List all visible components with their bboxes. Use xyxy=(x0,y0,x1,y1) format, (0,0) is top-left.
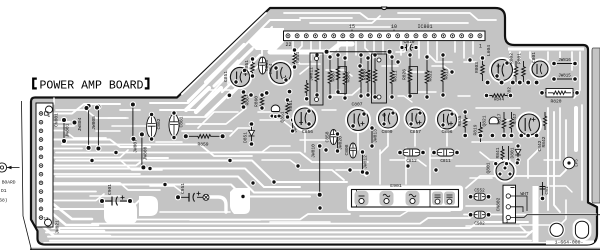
connector CN802 xyxy=(503,185,516,223)
svg-text:D1: D1 xyxy=(1,188,7,194)
resistor R819 xyxy=(479,122,483,142)
resistor R852 xyxy=(305,80,308,96)
svg-text:JW812: JW812 xyxy=(363,155,369,169)
svg-text:C502: C502 xyxy=(474,222,485,227)
resistor R803 xyxy=(481,58,485,81)
resistor group under IC801 xyxy=(315,55,319,95)
svg-text:C806: C806 xyxy=(441,129,452,135)
svg-text:C901: C901 xyxy=(107,184,113,195)
svg-text:R854: R854 xyxy=(295,52,301,63)
jumper JW805 xyxy=(97,107,99,149)
wire pour top-right margin xyxy=(508,48,584,51)
transistor Q821 xyxy=(489,117,498,124)
resistor R817 xyxy=(502,112,506,135)
node pads row middle cluster xyxy=(227,92,233,98)
svg-text:D851: D851 xyxy=(242,132,248,143)
svg-text:JW810: JW810 xyxy=(311,144,317,158)
jumper body JW814 xyxy=(338,67,347,94)
svg-text:C811: C811 xyxy=(440,159,451,164)
component E901 (AC filter block) xyxy=(352,190,459,208)
jumper JW820 xyxy=(337,134,339,151)
wire bus bottom horizontal traces xyxy=(50,240,531,242)
svg-text:JW816: JW816 xyxy=(558,59,571,63)
svg-text:R802: R802 xyxy=(509,53,515,64)
svg-text:R819: R819 xyxy=(473,124,479,135)
svg-text:R826: R826 xyxy=(402,69,408,80)
svg-text:LP5: LP5 xyxy=(576,159,580,167)
svg-text:R820: R820 xyxy=(550,98,561,104)
diode D801 xyxy=(517,146,519,160)
mounting hole right xyxy=(575,221,588,238)
capacitor C811 xyxy=(437,149,454,156)
capacitor C842 xyxy=(517,113,541,137)
capacitor C803 xyxy=(490,58,514,82)
wire pour bottom-left region xyxy=(104,202,137,224)
wire leads from CN802 xyxy=(511,196,528,211)
svg-text:C51: C51 xyxy=(544,186,550,195)
capacitor C552 xyxy=(474,193,486,200)
svg-text:C862: C862 xyxy=(156,118,162,129)
capacitor C853 xyxy=(259,57,267,74)
wire fan middle traces xyxy=(56,161,347,183)
svg-text:D801: D801 xyxy=(509,147,515,158)
svg-text:JW807: JW807 xyxy=(133,139,139,153)
svg-text:IC801: IC801 xyxy=(417,24,432,30)
resistor R844 xyxy=(489,94,508,97)
diode D845 xyxy=(508,146,510,162)
wire drops from IC801 pins xyxy=(292,41,294,57)
svg-text:R851: R851 xyxy=(244,60,250,71)
svg-text:Q851: Q851 xyxy=(279,111,285,122)
svg-text:JW808: JW808 xyxy=(143,146,149,160)
svg-text:R811: R811 xyxy=(392,70,398,81)
wire diagonal bundle near top-left edge xyxy=(206,45,244,82)
capacitor C809 xyxy=(377,108,399,130)
svg-text:R803: R803 xyxy=(474,62,480,73)
wire traces top-right section xyxy=(504,52,510,78)
svg-text:R817: R817 xyxy=(496,113,502,124)
capacitor C854 xyxy=(269,61,293,85)
svg-text:C812: C812 xyxy=(406,159,417,164)
jumper JW901 xyxy=(319,146,321,195)
svg-text:Q801: Q801 xyxy=(486,162,492,173)
board edge notch xyxy=(382,7,387,10)
svg-text:C861: C861 xyxy=(178,116,184,127)
resistor body R856 xyxy=(310,53,323,105)
svg-text:JW813: JW813 xyxy=(372,129,378,143)
svg-text:C801: C801 xyxy=(531,52,537,63)
svg-text:R835: R835 xyxy=(457,115,463,126)
resistor R854 xyxy=(293,50,297,67)
resistor R841 xyxy=(501,146,504,162)
svg-text:JW805: JW805 xyxy=(91,116,97,130)
svg-text:C951: C951 xyxy=(180,183,186,194)
svg-text:C809: C809 xyxy=(381,129,392,135)
wire diagonal traces along top-left edge xyxy=(182,13,266,94)
svg-text:JW820: JW820 xyxy=(338,136,344,150)
jumper JW808 xyxy=(141,134,143,167)
svg-text:JW821: JW821 xyxy=(55,220,61,234)
wire pour bottom-right hole area xyxy=(540,219,591,242)
svg-text:15: 15 xyxy=(349,24,355,30)
capacitor C807 xyxy=(346,108,370,132)
svg-text:R859: R859 xyxy=(197,142,208,148)
svg-text:Q821: Q821 xyxy=(482,115,488,126)
svg-text:E901: E901 xyxy=(390,183,402,189)
svg-text:22: 22 xyxy=(285,42,291,48)
jumper JW801 xyxy=(63,120,65,141)
svg-text:C856: C856 xyxy=(302,129,313,135)
resistor R861 xyxy=(286,100,290,117)
svg-text:JW804: JW804 xyxy=(77,117,83,131)
svg-text:R844: R844 xyxy=(494,98,505,103)
capacitor C858 xyxy=(330,130,337,145)
resistor R802 xyxy=(514,61,518,82)
node junction pads xyxy=(89,158,95,164)
svg-text:1-664-000-: 1-664-000- xyxy=(555,240,584,246)
wire pour mid-bottom blob xyxy=(230,188,250,214)
node pad left xyxy=(71,119,77,125)
capacitor C810 xyxy=(402,47,416,49)
svg-text:R813: R813 xyxy=(443,68,449,79)
svg-text:L604: L604 xyxy=(486,45,492,56)
resistor body R816 xyxy=(409,67,418,94)
node pads row right-middle xyxy=(462,133,468,139)
mounting hole left xyxy=(550,223,563,236)
svg-text:10: 10 xyxy=(391,24,397,30)
capacitor C862 xyxy=(147,116,157,138)
jumper JW812 xyxy=(362,152,364,172)
resistor R842 xyxy=(543,112,546,130)
resistor R847 xyxy=(510,112,514,135)
capacitor C857 xyxy=(405,108,427,130)
resistor R867 xyxy=(242,92,246,107)
resistor R801 xyxy=(522,61,526,82)
svg-text:C857: C857 xyxy=(410,129,421,135)
svg-text:R842: R842 xyxy=(541,136,547,147)
connector destination symbol (left margin) xyxy=(0,163,7,172)
wire traces above IC801 xyxy=(284,13,420,19)
svg-text:POWER AMP BOARD: POWER AMP BOARD xyxy=(40,79,144,92)
capacitor C951 xyxy=(178,196,206,198)
svg-text:C808: C808 xyxy=(344,144,350,155)
capacitor C801 xyxy=(531,60,550,79)
diode D851 xyxy=(251,124,253,144)
resistor R820 xyxy=(546,89,573,98)
svg-text:R801: R801 xyxy=(516,53,522,64)
transistor Q801 xyxy=(495,161,516,182)
wire pour channel right of E901 xyxy=(533,186,539,243)
node pad top row xyxy=(83,105,89,111)
jumper JW816 xyxy=(554,63,575,65)
svg-text:JW815: JW815 xyxy=(558,75,571,79)
svg-text:1: 1 xyxy=(479,44,482,50)
capacitor C808 xyxy=(349,143,356,158)
capacitor C806 xyxy=(436,109,458,131)
jumper JW804 xyxy=(88,106,90,148)
jumper JW813 xyxy=(371,128,373,146)
svg-text:C807: C807 xyxy=(351,102,362,108)
resistor R851 xyxy=(251,59,255,76)
wire pour upper-middle (below diagonal edge) xyxy=(248,28,284,50)
connector CN801 xyxy=(36,103,53,227)
svg-text:13: 13 xyxy=(44,218,50,222)
svg-text:C552: C552 xyxy=(474,189,485,194)
capacitor C515 xyxy=(542,182,544,198)
svg-text:C853: C853 xyxy=(264,60,270,71)
jumper JW809 xyxy=(292,120,294,131)
wire misc middle connections xyxy=(304,130,306,152)
svg-text:1: 1 xyxy=(48,114,51,119)
wire pour around E901 xyxy=(347,186,463,212)
capacitor C851 xyxy=(229,66,251,88)
capacitor C812 xyxy=(403,149,420,156)
svg-text:R860: R860 xyxy=(254,96,260,107)
svg-text:JW801: JW801 xyxy=(65,123,71,137)
wire across forest xyxy=(327,51,390,53)
svg-text:CN802: CN802 xyxy=(495,197,501,211)
leader line to board xyxy=(22,101,32,250)
resistor R835 xyxy=(463,112,467,133)
adjacent board strip (bottom of image) xyxy=(30,247,600,250)
node pads row right-top xyxy=(485,80,491,86)
svg-text:R861: R861 xyxy=(288,100,294,111)
IC IC801 pin strip xyxy=(284,31,486,41)
pad LP5 xyxy=(563,157,575,169)
svg-text:R822: R822 xyxy=(427,70,433,81)
wire texture traces xyxy=(56,125,74,127)
jumper JW807 xyxy=(132,105,134,139)
resistor body R815 xyxy=(372,54,387,103)
resistor R859 xyxy=(188,135,222,139)
wire traces right column xyxy=(547,108,549,210)
jumper JW815 xyxy=(554,78,575,80)
svg-text:BOARD: BOARD xyxy=(2,180,16,186)
capacitor C502 xyxy=(474,211,486,218)
svg-text:C858: C858 xyxy=(324,131,330,142)
transistor Q851 xyxy=(271,105,280,111)
capacitor C856 xyxy=(293,107,317,131)
capacitor C861 xyxy=(169,114,179,136)
wire fan from connector CN801 xyxy=(44,104,120,114)
svg-text:CN801: CN801 xyxy=(54,113,60,127)
svg-text:68): 68) xyxy=(0,198,8,204)
svg-text:R841: R841 xyxy=(495,147,501,158)
resistor R860 xyxy=(260,95,264,108)
svg-text:C851: C851 xyxy=(223,71,229,82)
adjacent board sliver (right edge) xyxy=(592,48,600,203)
capacitor C901 xyxy=(102,200,130,202)
title POWER AMP BOARD xyxy=(33,79,37,89)
